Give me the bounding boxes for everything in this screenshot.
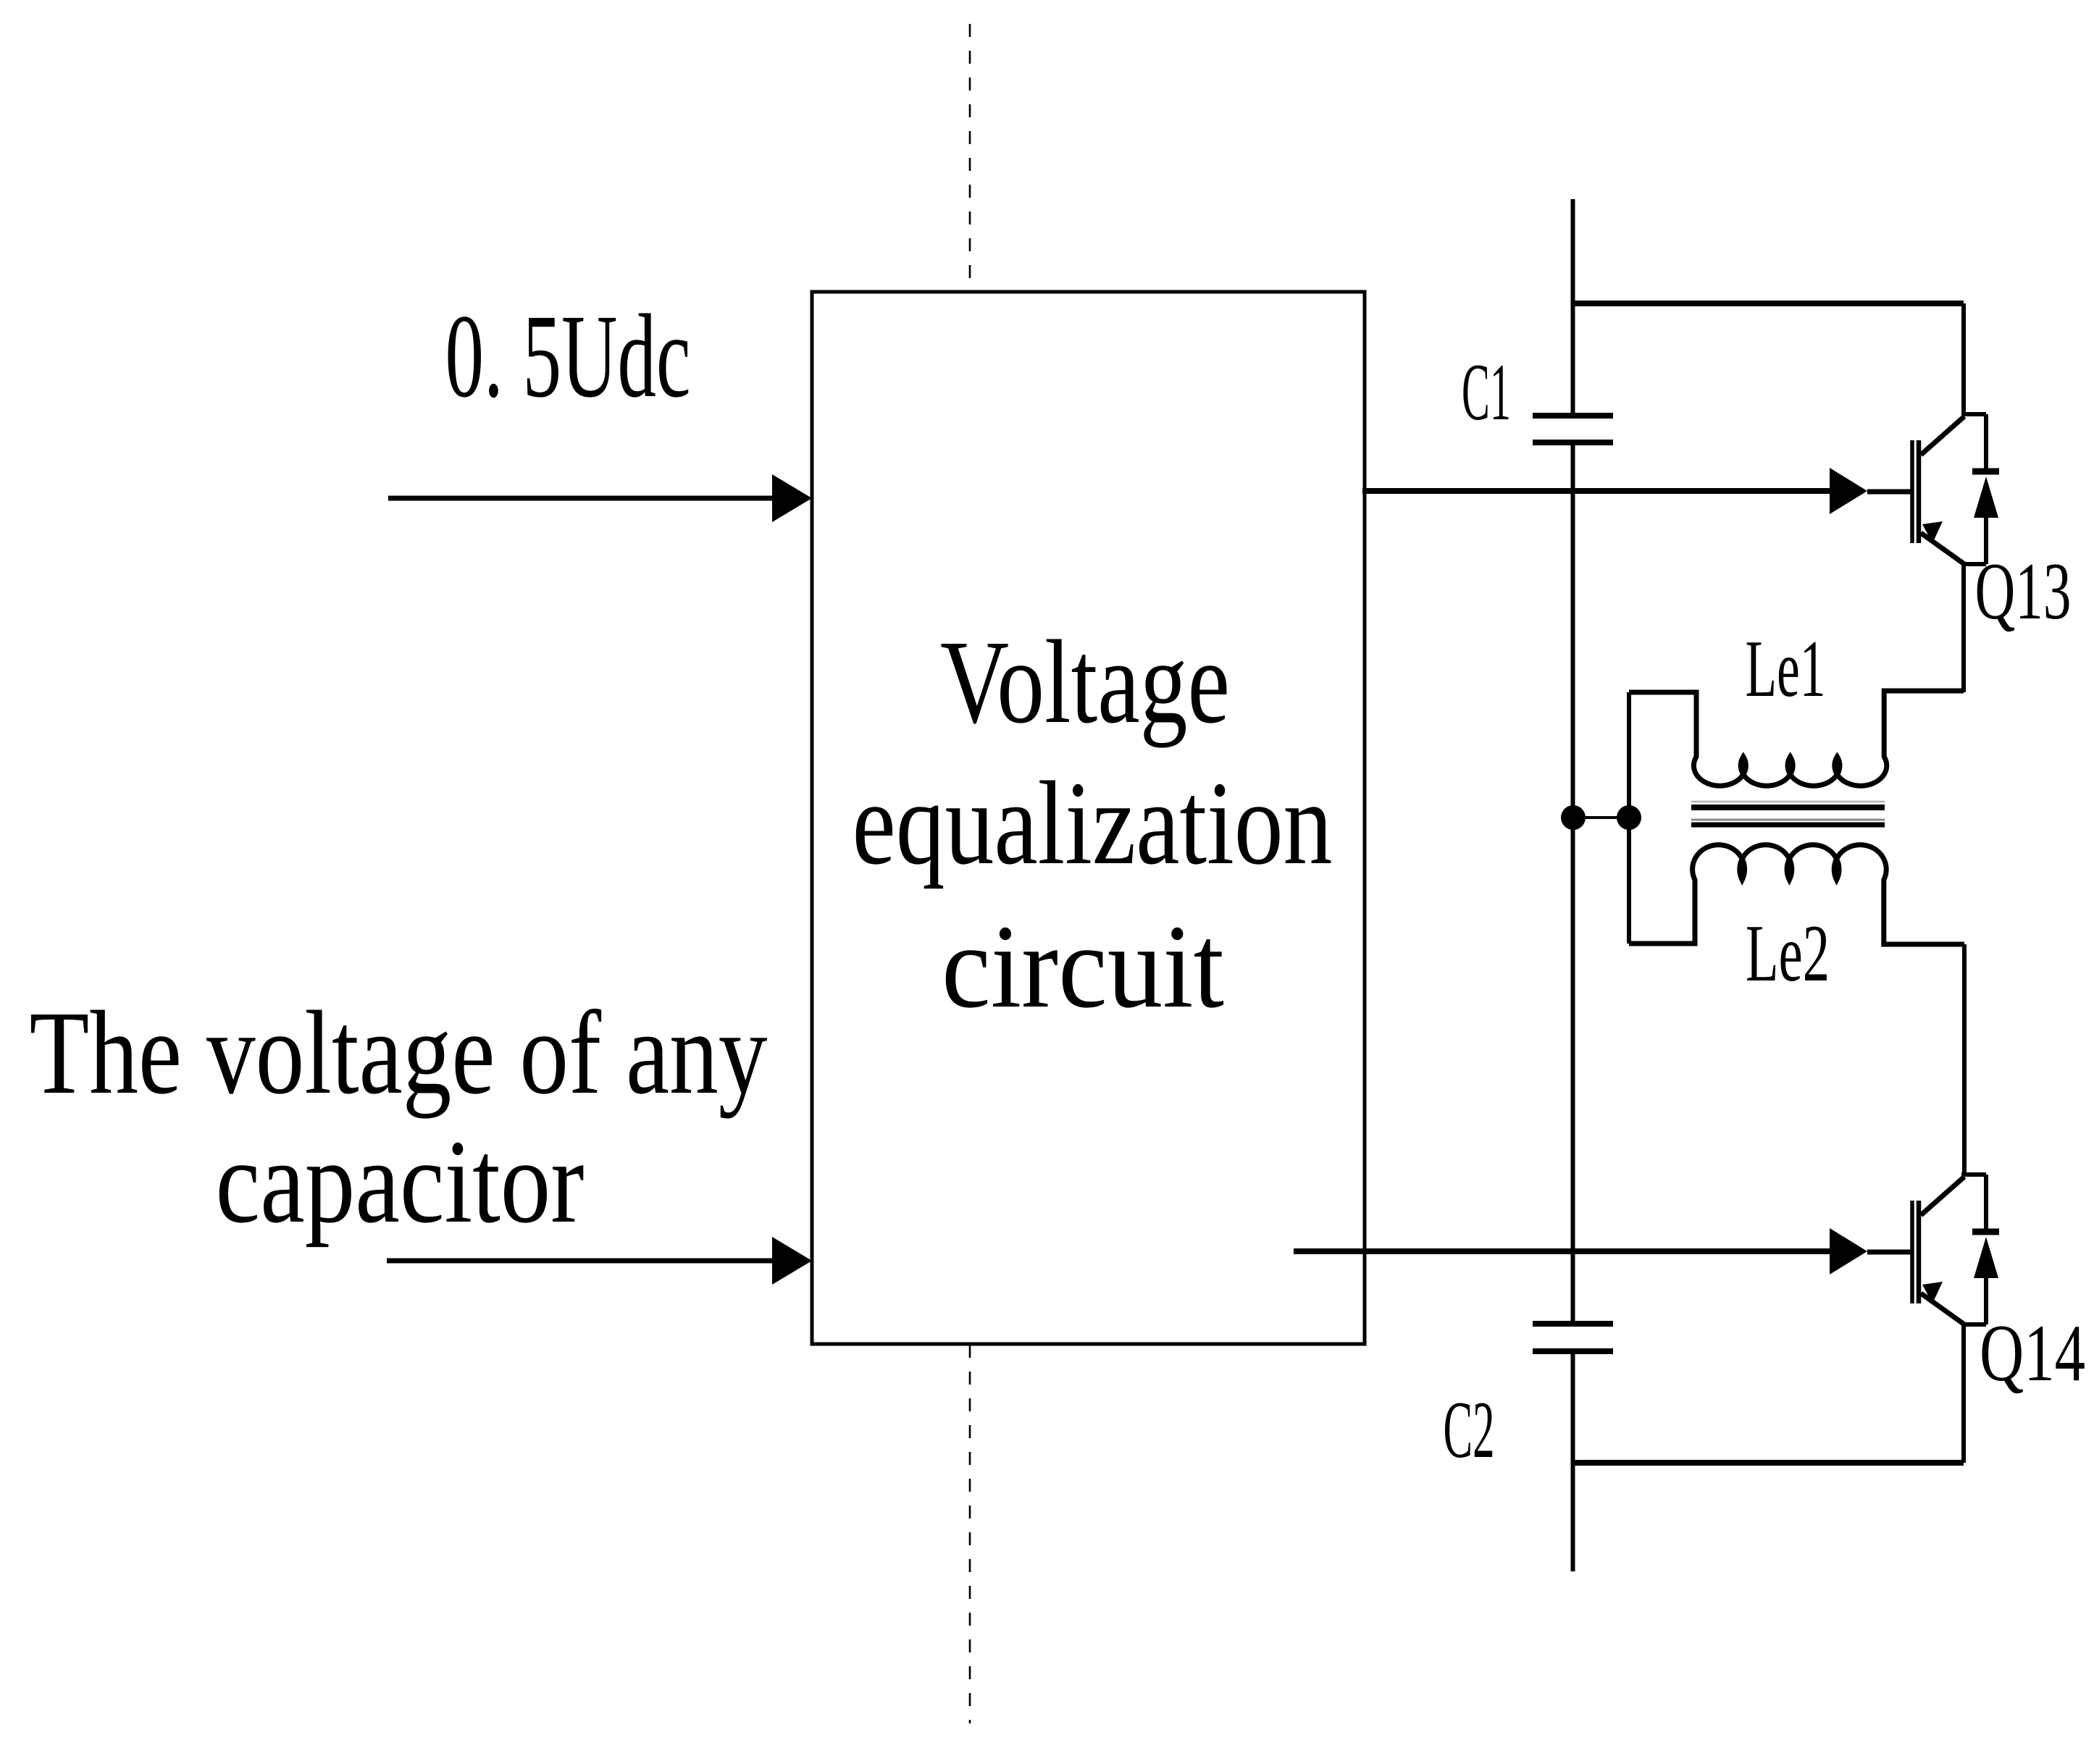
inductor Le1 (upper transformer winding)	[1629, 691, 1964, 786]
svg-text:Voltage: Voltage	[940, 616, 1230, 748]
svg-text:capacitor: capacitor	[216, 1115, 585, 1248]
transistor Q13 (IGBT with anti-parallel diode)	[1912, 303, 1999, 692]
node junction dot on bus	[1561, 805, 1586, 830]
svg-text:equalization: equalization	[853, 757, 1333, 889]
svg-text:C2: C2	[1444, 1385, 1495, 1475]
node junction dot at transformer tap	[1617, 805, 1641, 830]
wire: top branch to Q13 collector	[1572, 301, 1964, 306]
input arrow 2 (capacitor voltage into block)	[387, 1259, 774, 1264]
wire: gate drive to Q13	[1362, 488, 1830, 494]
svg-text:circuit: circuit	[942, 900, 1224, 1033]
svg-text:Q13: Q13	[1975, 547, 2072, 637]
capacitor C2	[1533, 1321, 1613, 1327]
wire: DC bus middle segment	[1571, 442, 1575, 1324]
input arrow 1 (0.5Udc into block)	[388, 496, 774, 501]
svg-text:C1: C1	[1462, 348, 1511, 437]
svg-text:0. 5Udc: 0. 5Udc	[445, 290, 691, 422]
wire: DC bus upper stub	[1571, 199, 1575, 416]
wire: gate drive to Q14	[1294, 1248, 1830, 1254]
transistor Q14 (IGBT with anti-parallel diode)	[1912, 944, 1999, 1463]
wire: link between junction dots	[1573, 816, 1629, 819]
wire: bottom branch to Q14 emitter	[1572, 1460, 1964, 1466]
wire: DC bus lower segment	[1571, 1351, 1575, 1571]
inductor Le2 (lower transformer winding)	[1629, 845, 1964, 944]
wire: tap vertical up to Le1	[1627, 692, 1631, 818]
dashed boundary line (top segment)	[969, 24, 971, 287]
capacitor C1	[1533, 413, 1613, 419]
wire: tap vertical down to Le2	[1627, 818, 1631, 944]
svg-text:The voltage of any: The voltage of any	[30, 986, 768, 1119]
transformer core	[1691, 801, 1885, 803]
block: Voltage equalization circuit	[812, 292, 1365, 1344]
svg-text:Le2: Le2	[1746, 909, 1830, 999]
svg-text:Le1: Le1	[1746, 624, 1826, 714]
dashed boundary line (bottom segment)	[969, 1345, 971, 1723]
svg-text:Q14: Q14	[1980, 1309, 2085, 1398]
